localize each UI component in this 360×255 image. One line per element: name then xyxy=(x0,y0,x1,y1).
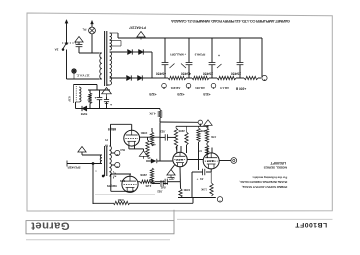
svg-text:6BQ5S: 6BQ5S xyxy=(107,184,117,188)
switch gang dashed link xyxy=(62,42,78,44)
V2 to V3 link xyxy=(187,159,203,161)
svg-text:+ MALLORY: + MALLORY xyxy=(170,53,186,57)
cathode bottom wire xyxy=(111,190,134,192)
PI grid resistor mid xyxy=(186,126,188,132)
svg-text:117 V.A.C.: 117 V.A.C. xyxy=(76,74,89,78)
OT taps to tubes xyxy=(109,145,110,147)
feedback resistor xyxy=(93,202,113,204)
speaker ground wire xyxy=(82,154,102,156)
chassis ground (line bypass cap) xyxy=(75,37,83,43)
feedback R xyxy=(113,201,130,204)
top ground rail xyxy=(117,33,119,38)
right rail drop xyxy=(261,38,263,78)
svg-text:1: 1 xyxy=(95,169,97,171)
bias cap 1 xyxy=(99,90,101,98)
AC line wire with arrow xyxy=(66,22,68,43)
left drop wire xyxy=(110,176,112,191)
drop to bottom rail xyxy=(191,172,193,198)
line cap xyxy=(76,44,83,46)
OT tap term 1 xyxy=(115,150,120,155)
cap at column bottom xyxy=(152,183,160,185)
svg-text:Garnet: Garnet xyxy=(31,220,70,232)
OT primary winding xyxy=(109,146,111,176)
feedback wire down xyxy=(92,164,94,205)
svg-text:220K: 220K xyxy=(140,173,147,177)
driver resistor chain xyxy=(151,128,153,132)
preamp tube V3 12AX7 xyxy=(203,153,219,169)
svg-text:12AX7: 12AX7 xyxy=(206,159,214,162)
faint scan line under logo box xyxy=(26,239,170,241)
V5 grid resistor xyxy=(138,181,140,183)
terminal row under supply xyxy=(162,83,167,88)
pointer slashes xyxy=(170,64,175,69)
page frame xyxy=(27,13,332,211)
wire to bias terminal xyxy=(160,121,198,123)
rectifier join xyxy=(151,52,153,78)
svg-text:2.2K: 2.2K xyxy=(145,184,151,188)
resistor below arrow xyxy=(150,168,153,182)
OT secondary winding xyxy=(100,155,102,164)
svg-text:PL: PL xyxy=(82,28,86,32)
PI supply node wire xyxy=(176,125,208,127)
V2 cathode drop xyxy=(179,167,182,189)
bias filter R xyxy=(88,93,91,104)
title block divider riser xyxy=(173,210,175,221)
long drop wire x160 xyxy=(159,122,161,161)
screen resistor xyxy=(146,140,149,157)
svg-text:40/450: 40/450 xyxy=(156,72,166,76)
rectifier diodes D1 D2 xyxy=(128,49,133,54)
svg-text:+320: +320 xyxy=(177,92,184,96)
wire primary bottom xyxy=(67,78,100,80)
coupling cap to V5 xyxy=(155,181,165,183)
fuse F1 xyxy=(72,69,77,74)
HV winding xyxy=(110,52,112,85)
svg-text:47K: 47K xyxy=(211,135,216,139)
ground near PI xyxy=(204,120,212,126)
faint scan line right of logo box xyxy=(177,218,333,220)
svg-text:PHASE INVERTER-VIBRATO CHAN.,: PHASE INVERTER-VIBRATO CHAN., xyxy=(239,180,287,184)
svg-text:P1: P1 xyxy=(104,138,108,141)
pilot lamp PL xyxy=(89,27,96,34)
svg-text:1.5K: 1.5K xyxy=(201,188,207,192)
svg-text:+: + xyxy=(110,103,112,107)
svg-text:SPEAKER: SPEAKER xyxy=(67,165,80,169)
faint fold line xyxy=(95,194,155,196)
svg-text:6.8K: 6.8K xyxy=(117,198,124,202)
bias winding bottom lead xyxy=(76,101,80,103)
filter resistor R-D xyxy=(244,76,258,79)
svg-text:20/450: 20/450 xyxy=(203,72,213,76)
svg-text:.022: .022 xyxy=(160,130,166,134)
V2 ground xyxy=(171,165,175,170)
OT tap term 2 xyxy=(115,162,120,167)
svg-text:AB-1.5: AB-1.5 xyxy=(220,86,229,90)
heater winding xyxy=(110,33,112,50)
to V5 plate xyxy=(111,173,132,175)
PI tube V2 12AX7 xyxy=(173,152,187,166)
filter resistor R-C xyxy=(217,76,236,79)
svg-text:100K: 100K xyxy=(184,188,190,192)
bottom node wire xyxy=(178,197,216,199)
long drop wire xyxy=(198,142,200,170)
V3 cathode resistor xyxy=(210,172,212,183)
svg-text:12AX7: 12AX7 xyxy=(175,158,183,161)
svg-text:6.3V: 6.3V xyxy=(67,96,71,102)
output tube V4 6BQ5 xyxy=(124,130,140,146)
bias diode xyxy=(76,108,83,110)
bias cap 2 xyxy=(106,97,108,100)
bias terminal xyxy=(198,120,202,124)
V4 screen wire and resistor xyxy=(140,136,160,138)
V3 cathode cap xyxy=(210,169,212,172)
svg-text:6BQ5: 6BQ5 xyxy=(108,127,117,131)
rectifier diodes D3 D4 xyxy=(127,75,132,80)
filter resistor R-A xyxy=(168,76,186,79)
bias dropping resistor xyxy=(159,109,161,111)
svg-text:+: + xyxy=(218,53,220,57)
PI plate resistor 1 xyxy=(175,126,177,128)
V2 cathode resistor xyxy=(179,189,182,198)
PI resistor chain right xyxy=(205,128,208,143)
svg-text:FP249.5: FP249.5 xyxy=(194,53,205,57)
svg-text:For the following models:: For the following models: xyxy=(252,175,287,179)
svg-text:+: + xyxy=(196,178,198,182)
primary winding xyxy=(100,53,102,79)
svg-text:PT-6A2197: PT-6A2197 xyxy=(129,25,146,29)
svg-text:50/50: 50/50 xyxy=(80,112,87,116)
terminal standby xyxy=(262,75,267,80)
svg-text:40/450: 40/450 xyxy=(181,72,191,76)
svg-text:.022: .022 xyxy=(157,190,163,194)
B+ rail xyxy=(152,77,168,79)
svg-text:MODEL SERIES: MODEL SERIES xyxy=(264,166,287,170)
bias mid wire xyxy=(88,89,110,91)
bias top wire xyxy=(74,84,98,86)
svg-text:20/450: 20/450 xyxy=(231,72,241,76)
bias ground xyxy=(102,88,112,94)
Garnet logo box xyxy=(26,221,174,234)
svg-text:4.7K: 4.7K xyxy=(149,111,156,115)
terminal 1 xyxy=(217,197,222,202)
svg-text:.01: .01 xyxy=(200,177,204,181)
svg-text:POWER SUPPLY-OUTPUT STAGE,: POWER SUPPLY-OUTPUT STAGE, xyxy=(242,185,288,189)
svg-text:AB-901: AB-901 xyxy=(195,86,205,90)
svg-text:GARNET AMPLIFIER CO. LTD. 411: GARNET AMPLIFIER CO. LTD. 411 PERRY ROAD… xyxy=(171,19,290,24)
V4 cathode to ground xyxy=(128,146,130,149)
junction dot OT xyxy=(102,175,104,177)
PI plate resistor 2 xyxy=(198,126,200,128)
svg-text:2A: 2A xyxy=(54,48,59,52)
coupling cap to V4 xyxy=(160,136,165,138)
input jack xyxy=(231,158,237,164)
filter capacitors C1-C4 xyxy=(164,38,166,63)
svg-text:+325: +325 xyxy=(149,92,156,96)
output tube V5 6BQ5 xyxy=(122,176,138,192)
svg-text:LB100FT: LB100FT xyxy=(270,161,286,165)
filter resistor R-B xyxy=(192,76,209,79)
output transformer OT core xyxy=(104,146,106,176)
speaker hot wire xyxy=(67,163,102,165)
svg-text:AB-901: AB-901 xyxy=(170,86,180,90)
rail ground xyxy=(137,32,145,38)
svg-text:BLU: BLU xyxy=(120,148,125,150)
svg-text:+300 B: +300 B xyxy=(235,86,246,90)
to V4 plate xyxy=(111,123,132,125)
power switch SW1 xyxy=(63,43,67,50)
svg-text:0.5: 0.5 xyxy=(198,149,202,153)
electrolytic arrow cap xyxy=(146,160,151,162)
svg-text:220K: 220K xyxy=(178,129,184,133)
V3 output wire to jack xyxy=(219,160,231,162)
wire lamp down xyxy=(91,34,93,53)
svg-text:+: + xyxy=(94,96,96,100)
bias feed wire xyxy=(87,108,160,110)
svg-text:LB100FT: LB100FT xyxy=(295,221,328,228)
feedback junction dot xyxy=(92,163,94,165)
speaker jack tick xyxy=(66,161,68,167)
svg-text:100K: 100K xyxy=(141,131,148,135)
wire arrow-cap to V2 grid xyxy=(157,160,173,162)
svg-text:+315: +315 xyxy=(203,92,210,96)
wire primary top xyxy=(79,52,100,54)
